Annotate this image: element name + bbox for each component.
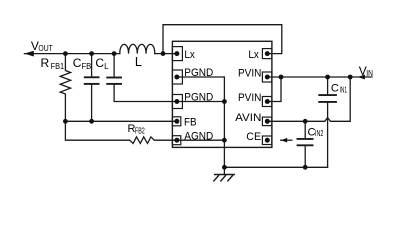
svg-text:FB: FB [184,116,197,128]
svg-text:PVIN: PVIN [238,68,261,80]
svg-text:CE: CE [246,131,261,143]
svg-text:PGND: PGND [184,67,213,79]
svg-text:Lx: Lx [248,49,259,61]
svg-text:R: R [41,56,50,70]
svg-text:C: C [331,82,339,94]
svg-text:FB1: FB1 [51,62,65,71]
svg-text:C: C [73,56,82,70]
svg-text:FB: FB [82,62,92,71]
svg-text:C: C [95,56,104,70]
svg-text:FB2: FB2 [135,126,145,135]
svg-text:IN1: IN1 [340,86,348,95]
svg-text:L: L [104,62,109,71]
svg-text:L: L [135,55,142,69]
svg-text:PVIN: PVIN [238,92,261,104]
svg-text:OUT: OUT [38,44,52,53]
svg-text:PGND: PGND [184,92,213,104]
svg-text:AGND: AGND [184,130,213,142]
svg-text:Lx: Lx [184,49,195,61]
svg-text:IN2: IN2 [315,129,324,138]
svg-text:AVIN: AVIN [235,112,261,124]
svg-text:IN: IN [366,69,373,78]
